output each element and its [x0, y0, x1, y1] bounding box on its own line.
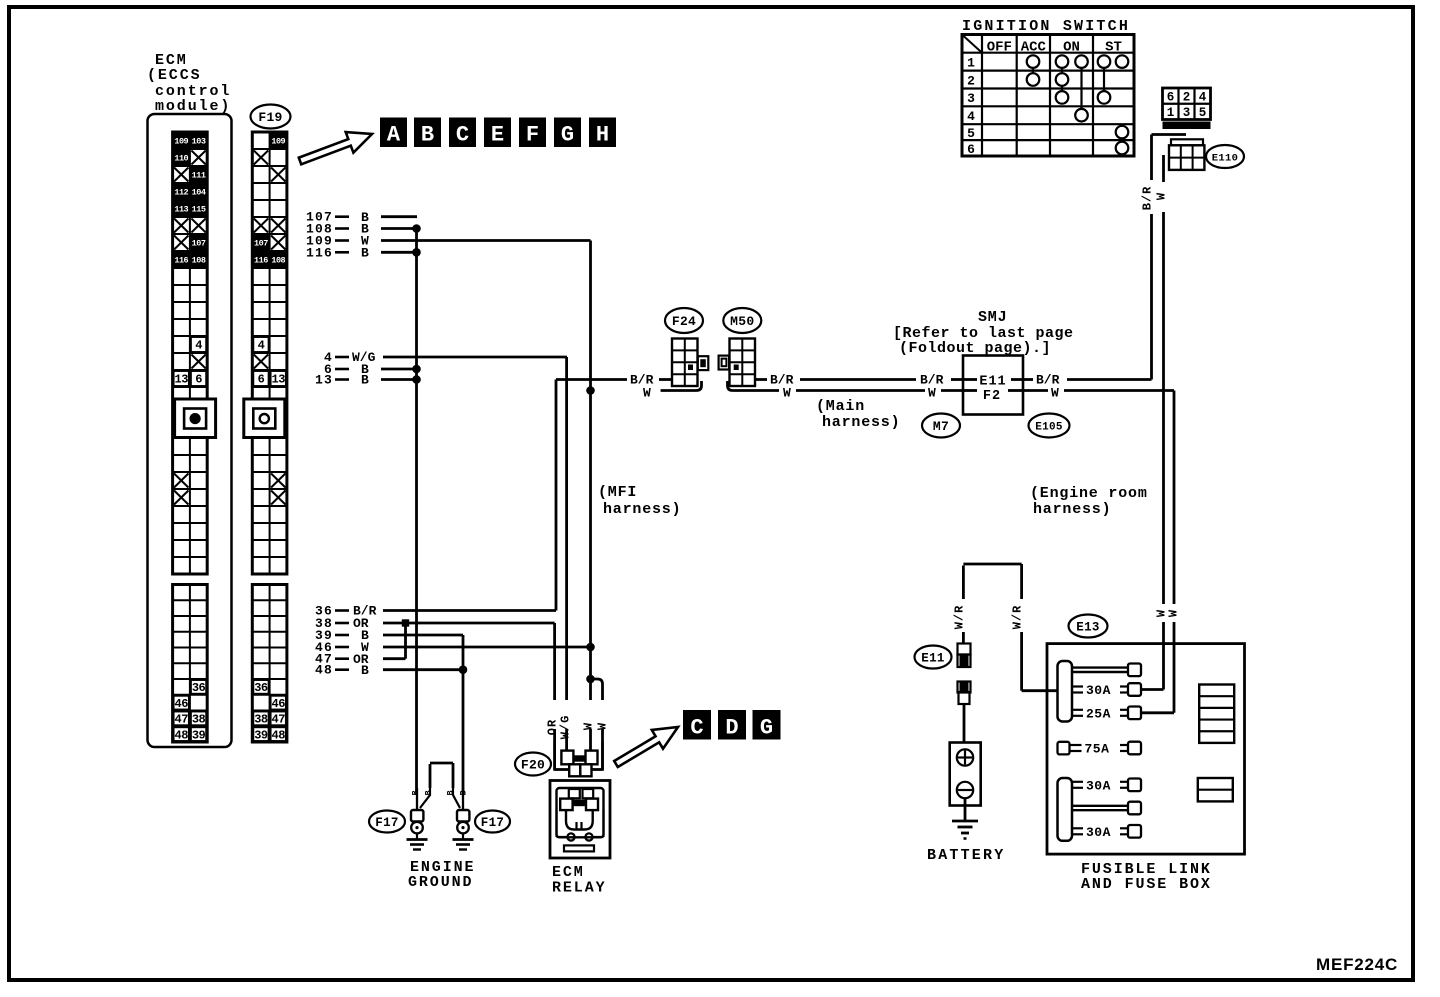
svg-text:W: W	[928, 386, 936, 401]
svg-text:107: 107	[192, 239, 206, 249]
wire 39/48 B vertical to ground	[462, 635, 465, 795]
svg-text:1: 1	[967, 55, 975, 70]
ignition switch contact circles	[1027, 55, 1129, 154]
wire W riser x1163.5 from E110 to fuse box	[1155, 155, 1169, 690]
ECM connector column pinout grid (module side)	[173, 132, 216, 742]
fuse 30A (to W wire 1)	[1072, 683, 1164, 698]
drawing number MEF224C	[1316, 955, 1398, 974]
svg-text:116: 116	[254, 256, 268, 266]
inline connector pair E11	[958, 644, 971, 668]
svg-text:39: 39	[254, 728, 268, 742]
wire W segment under F24	[643, 381, 702, 401]
svg-text:W: W	[1051, 386, 1059, 401]
svg-text:103: 103	[192, 137, 206, 147]
svg-text:4: 4	[1199, 90, 1207, 104]
svg-text:B: B	[361, 246, 369, 261]
fuse 75A	[1058, 742, 1142, 757]
fuse 25A (to W wire 2)	[1072, 706, 1174, 721]
svg-text:30A: 30A	[1086, 825, 1111, 840]
ECM pin 39 wire label B	[315, 628, 369, 643]
wire 109 W to vertical	[381, 239, 591, 242]
svg-text:ST: ST	[1105, 40, 1122, 56]
rotated labels W/R W/R	[952, 605, 1024, 630]
wire W drop x1174 from SMJ to fuse box	[1173, 391, 1176, 713]
ignition switch connector pin grid 6-2-4 / 1-3-5	[1163, 88, 1211, 120]
svg-text:46: 46	[272, 697, 286, 711]
wire B/R riser x556 (pin36 to main harness)	[555, 380, 558, 611]
svg-text:M50: M50	[730, 314, 754, 329]
arrow to sheet codes A-H	[299, 132, 372, 164]
svg-text:46: 46	[175, 697, 189, 711]
battery ground symbol	[952, 798, 978, 838]
ECM pin 13 wire label B	[315, 373, 369, 388]
wire 4 W/G to vertical	[383, 356, 567, 359]
wire B/R riser x1151.5 to connector E110	[1141, 135, 1187, 380]
svg-text:3: 3	[1183, 106, 1191, 120]
svg-text:E110: E110	[1212, 152, 1238, 164]
svg-text:F: F	[526, 123, 539, 148]
svg-text:harness): harness)	[603, 501, 681, 518]
ECM RELAY label	[552, 864, 607, 897]
wire B/R main harness segment to F24	[556, 373, 672, 388]
svg-text:47: 47	[272, 713, 286, 727]
svg-text:6: 6	[1167, 90, 1175, 104]
ECM pin 108 wire label B	[306, 222, 369, 237]
svg-text:ACC: ACC	[1021, 40, 1047, 56]
sheet code box C	[449, 118, 476, 148]
svg-text:ECM: ECM	[552, 864, 585, 881]
svg-text:48: 48	[315, 663, 333, 678]
svg-text:B: B	[361, 663, 369, 678]
svg-text:B: B	[361, 373, 369, 388]
svg-text:39: 39	[192, 728, 206, 742]
svg-text:113: 113	[174, 205, 188, 215]
fuse 30A (lower 1)	[1072, 778, 1141, 793]
connector F17 label oval (left)	[369, 811, 405, 833]
svg-text:48: 48	[272, 728, 286, 742]
svg-text:F24: F24	[672, 314, 696, 329]
svg-text:F19: F19	[258, 110, 282, 125]
BATTERY label	[927, 847, 1005, 864]
inline connector pair lower	[958, 682, 971, 705]
svg-text:25A: 25A	[1086, 706, 1111, 721]
connector E13 label oval	[1069, 615, 1108, 638]
ignition switch header OFF ACC ON ST	[987, 40, 1122, 56]
svg-text:30A: 30A	[1086, 778, 1111, 793]
sheet code box G	[753, 710, 781, 741]
ECM pin 109 wire label W	[306, 234, 369, 249]
ECM pin 4 wire label W/G	[324, 350, 376, 365]
svg-text:H: H	[596, 123, 609, 148]
rotated labels W W above fuse box	[1155, 609, 1181, 617]
wire B/R from SMJ to E110 riser	[1023, 373, 1152, 388]
svg-text:W/G: W/G	[559, 715, 573, 740]
svg-text:4: 4	[258, 339, 265, 353]
ECM relay K1 outer case	[550, 781, 610, 859]
svg-text:BATTERY: BATTERY	[927, 847, 1005, 864]
svg-text:116: 116	[174, 256, 188, 266]
engine ground post 1 (F17)	[407, 788, 431, 850]
wire OR drop x554.6 (pin38/47 to ECM relay)	[555, 623, 570, 771]
(Main harness) note	[816, 398, 900, 431]
wire 36 B/R horizontal	[383, 609, 556, 612]
SMJ internal line stubs	[963, 380, 1023, 391]
svg-text:3: 3	[967, 91, 975, 106]
svg-text:E13: E13	[1076, 621, 1099, 635]
svg-text:SMJ: SMJ	[978, 309, 1007, 326]
wire from pin 107	[381, 215, 417, 218]
svg-text:E105: E105	[1035, 421, 1063, 433]
svg-text:B: B	[411, 790, 421, 795]
F24 lock tab	[698, 356, 709, 370]
sheet code box H	[589, 118, 616, 148]
fuse 30A (lower 2)	[1072, 825, 1141, 840]
svg-text:2: 2	[967, 73, 975, 88]
fusible link (direct) row 1	[1072, 664, 1141, 677]
sheet code box C	[683, 710, 711, 741]
ECM pin 116 wire label B	[306, 245, 369, 260]
connector F24 pin grid	[672, 339, 698, 387]
svg-text:13: 13	[175, 373, 189, 387]
svg-text:(ECCS: (ECCS	[147, 67, 202, 84]
svg-text:75A: 75A	[1085, 742, 1110, 757]
ignition connector keying bar	[1163, 122, 1211, 130]
connector F19 pinout grid	[244, 132, 287, 742]
ground bridge wire between F17 posts	[430, 763, 453, 788]
ECM (ECCS control module) label	[147, 52, 231, 115]
tiny wire labels B B B B	[411, 790, 469, 795]
fusible link (direct) row lower	[1072, 802, 1141, 815]
svg-text:AND FUSE BOX: AND FUSE BOX	[1081, 876, 1212, 893]
(Engine room harness) note	[1030, 485, 1148, 518]
svg-text:109: 109	[271, 137, 285, 147]
wire 46 W horizontal with junction	[383, 643, 595, 652]
connector F20 plug housing	[555, 741, 603, 776]
ECM pin 46 wire label W	[315, 640, 369, 655]
wire from pin 6 with junction	[381, 365, 421, 374]
svg-text:2: 2	[1183, 90, 1191, 104]
ignition switch row numbers 1-6	[967, 55, 975, 156]
connector E11 label oval	[915, 646, 952, 669]
svg-text:5: 5	[967, 126, 975, 141]
svg-text:116: 116	[306, 245, 333, 260]
svg-text:W: W	[596, 722, 610, 730]
ECM pin 48 wire label B	[315, 663, 369, 678]
svg-text:104: 104	[192, 188, 206, 198]
svg-text:W: W	[643, 386, 651, 401]
rotated wire color labels OR W/G W W at F20	[546, 715, 610, 740]
fusible link and fuse box outline	[1047, 644, 1245, 855]
svg-text:6: 6	[967, 142, 975, 157]
svg-text:38: 38	[192, 713, 206, 727]
ECM pin 6 wire label B	[324, 362, 369, 377]
sheet code box B	[414, 118, 441, 148]
engine ground post 2 (F17)	[453, 788, 474, 850]
svg-text:W: W	[1155, 192, 1169, 200]
wire 39 B horizontal	[383, 634, 463, 637]
svg-text:G: G	[760, 716, 773, 741]
connector F24 label oval	[665, 308, 703, 333]
wire W/R left drop to connector E11	[962, 632, 965, 644]
sheet code box A	[380, 118, 407, 148]
ECM pin 107 wire label B	[306, 210, 369, 225]
svg-text:B: B	[424, 790, 434, 795]
svg-text:B: B	[421, 123, 434, 148]
connector F17 label oval (right)	[475, 811, 510, 833]
svg-text:108: 108	[271, 256, 285, 266]
svg-text:W: W	[1167, 609, 1181, 617]
wire W/R battery loop	[963, 564, 1021, 599]
svg-text:(Main: (Main	[816, 398, 865, 415]
svg-text:OR: OR	[546, 719, 560, 735]
svg-text:F17: F17	[481, 816, 504, 830]
ignition switch contact table	[962, 35, 1134, 157]
svg-text:107: 107	[254, 239, 268, 249]
wire from pin 108 with junction	[381, 224, 421, 233]
wire W from M50 to SMJ	[728, 381, 1175, 401]
svg-text:110: 110	[174, 154, 188, 164]
svg-text:30A: 30A	[1086, 683, 1111, 698]
svg-text:C: C	[690, 716, 703, 741]
ground bus wire vertical node B	[415, 229, 418, 796]
svg-text:111: 111	[192, 171, 206, 181]
svg-text:E11: E11	[979, 375, 1006, 390]
svg-text:C: C	[456, 123, 469, 148]
wire from pin 13 with junction	[381, 375, 421, 384]
svg-text:OFF: OFF	[987, 40, 1012, 56]
svg-text:IGNITION SWITCH: IGNITION SWITCH	[962, 18, 1130, 35]
ECM pin 36 wire label B/R	[315, 604, 377, 619]
wire W drop x590.5 (pin109/46 to ECM relay) with junctions	[586, 241, 595, 752]
M50 lock tab	[719, 356, 730, 370]
arrow to sheet codes C D G	[614, 727, 678, 767]
svg-text:4: 4	[967, 109, 975, 124]
svg-text:harness): harness)	[822, 414, 900, 431]
wire to battery positive	[963, 704, 966, 743]
sheet code box E	[484, 118, 511, 148]
fuse block connector stack upper right	[1199, 685, 1234, 743]
fusible link holder lower	[1058, 778, 1073, 841]
ECM relay internals	[557, 788, 604, 851]
svg-text:13: 13	[315, 373, 333, 388]
connector M50 label oval	[723, 308, 761, 333]
wire 38 OR horizontal with junction	[383, 619, 555, 626]
svg-text:MEF224C: MEF224C	[1316, 955, 1398, 974]
SMJ title and note	[893, 309, 1074, 357]
svg-text:D: D	[725, 716, 738, 741]
svg-text:5: 5	[1199, 106, 1207, 120]
svg-text:W/R: W/R	[1011, 605, 1025, 630]
SMJ junction box E11/F2	[963, 356, 1023, 415]
svg-text:115: 115	[192, 205, 206, 215]
svg-text:W: W	[582, 722, 596, 730]
connector E105 label oval	[1029, 414, 1070, 438]
svg-text:36: 36	[192, 681, 206, 695]
svg-text:M7: M7	[933, 419, 949, 434]
svg-text:harness): harness)	[1033, 501, 1111, 518]
svg-text:4: 4	[195, 339, 202, 353]
connector M50 pin grid	[730, 339, 756, 387]
svg-text:6: 6	[258, 373, 265, 387]
svg-text:(MFI: (MFI	[598, 484, 637, 501]
connector F19 label oval	[251, 105, 291, 129]
battery BAT1	[950, 743, 981, 806]
sheet code box G	[554, 118, 581, 148]
(MFI harness) note	[598, 484, 681, 518]
svg-text:36: 36	[254, 681, 268, 695]
wire W branch to second relay pin x602.5	[591, 679, 603, 771]
wire B/R from M50 to SMJ	[755, 373, 963, 388]
svg-text:(Engine room: (Engine room	[1030, 485, 1148, 502]
ENGINE GROUND label	[408, 859, 475, 891]
wire 48 B horizontal with junction	[383, 665, 467, 674]
ECM pin 47 wire label OR	[315, 652, 369, 667]
svg-text:W/R: W/R	[952, 605, 966, 630]
connector E110 label oval	[1206, 145, 1244, 168]
FUSIBLE LINK AND FUSE BOX label	[1081, 861, 1212, 893]
svg-text:F2: F2	[983, 389, 1001, 404]
svg-text:E: E	[491, 123, 504, 148]
svg-text:B/R: B/R	[1036, 373, 1060, 388]
svg-text:38: 38	[254, 713, 268, 727]
svg-text:GROUND: GROUND	[408, 874, 473, 891]
svg-text:module): module)	[155, 98, 231, 115]
svg-text:1: 1	[1167, 106, 1175, 120]
svg-text:F17: F17	[375, 816, 398, 830]
wire B/R between F24 and M50	[0, 0, 1, 1]
svg-text:109: 109	[174, 137, 188, 147]
fusible link holder upper	[1058, 661, 1073, 722]
svg-text:RELAY: RELAY	[552, 880, 607, 897]
svg-text:G: G	[561, 123, 574, 148]
svg-text:48: 48	[175, 728, 189, 742]
svg-text:47: 47	[175, 713, 189, 727]
svg-text:112: 112	[174, 188, 188, 198]
sheet code box F	[519, 118, 546, 148]
svg-text:B/R: B/R	[1141, 186, 1155, 211]
fuse block connector stack lower right	[1198, 778, 1233, 801]
ECM pin 38 wire label OR	[315, 616, 369, 631]
IGNITION SWITCH title	[962, 18, 1130, 35]
svg-text:108: 108	[192, 256, 206, 266]
wire W/R right drop to fuse box	[1022, 632, 1058, 691]
svg-text:W: W	[783, 386, 791, 401]
wire W/G drop x566.6 (pin4 to ECM relay)	[565, 357, 568, 752]
svg-text:13: 13	[272, 373, 286, 387]
wire 47 OR stub and tie vertical	[383, 623, 406, 659]
ECM module outline U1	[148, 114, 232, 747]
svg-text:F20: F20	[521, 758, 545, 773]
svg-text:E11: E11	[921, 652, 944, 666]
wire from pin 116 with junction	[381, 248, 421, 257]
connector E110 pin grid	[1169, 139, 1204, 170]
svg-text:6: 6	[195, 373, 202, 387]
svg-text:ON: ON	[1063, 40, 1080, 56]
sheet code box D	[718, 710, 746, 741]
svg-text:A: A	[387, 123, 401, 148]
connector M7 label oval	[922, 414, 960, 438]
connector F20 label oval	[515, 753, 551, 776]
